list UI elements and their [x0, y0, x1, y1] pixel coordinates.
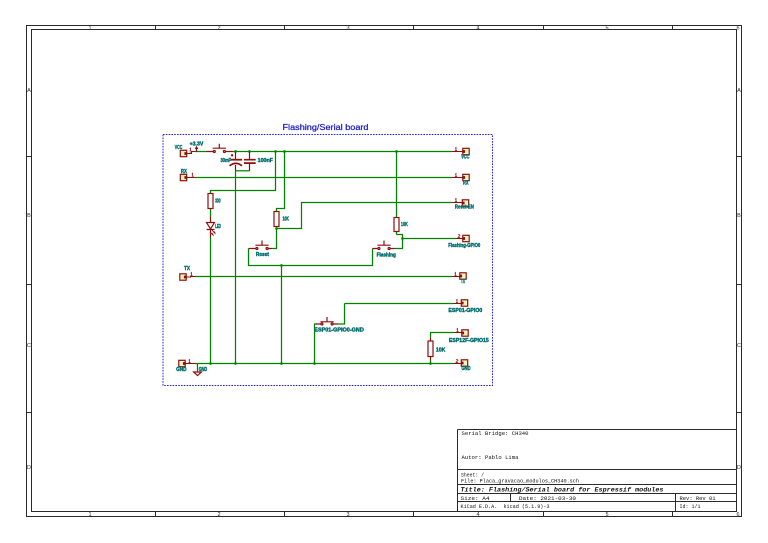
svg-text:5: 5: [605, 26, 608, 32]
svg-text:Rev: Rev 01: Rev: Rev 01: [680, 495, 717, 502]
svg-text:Title: Flashing/Serial board f: Title: Flashing/Serial board for Espress…: [461, 487, 664, 495]
svg-text:File: Placa_gravacao_modulos_C: File: Placa_gravacao_modulos_CH340.sch: [461, 477, 579, 484]
svg-text:C: C: [27, 343, 31, 349]
svg-text:Flashing-GPIO0: Flashing-GPIO0: [448, 243, 480, 249]
svg-text:C: C: [737, 343, 741, 349]
svg-text:GND: GND: [199, 367, 208, 373]
svg-text:10K: 10K: [401, 222, 408, 228]
svg-text:ESP12F-GPIO15: ESP12F-GPIO15: [449, 338, 489, 344]
svg-text:RX: RX: [181, 169, 188, 175]
svg-text:Id: 1/1: Id: 1/1: [680, 503, 702, 510]
svg-text:Reset: Reset: [256, 252, 269, 258]
svg-text:Flashing/Serial board: Flashing/Serial board: [283, 122, 369, 132]
svg-text:330: 330: [215, 199, 221, 205]
svg-text:3: 3: [346, 26, 349, 32]
svg-text:LED: LED: [215, 224, 221, 230]
svg-text:30mF: 30mF: [221, 158, 232, 164]
svg-text:Reset-EN: Reset-EN: [455, 205, 474, 211]
svg-text:4: 4: [476, 26, 479, 32]
svg-text:100nF: 100nF: [258, 158, 273, 164]
svg-text:1: 1: [88, 26, 91, 32]
svg-text:4: 4: [476, 512, 479, 518]
svg-text:1: 1: [88, 512, 91, 518]
svg-text:Flashing: Flashing: [377, 252, 396, 258]
svg-text:ESP01-GPIO0-GND: ESP01-GPIO0-GND: [314, 328, 364, 334]
svg-text:2: 2: [217, 26, 220, 32]
svg-text:TX: TX: [184, 266, 191, 272]
svg-text:Size: A4: Size: A4: [461, 495, 491, 502]
svg-text:D: D: [27, 465, 31, 471]
svg-text:GND: GND: [176, 367, 187, 373]
svg-text:GND: GND: [462, 366, 471, 372]
svg-text:Date: 2021-03-30: Date: 2021-03-30: [519, 495, 577, 502]
svg-text:10K: 10K: [436, 348, 446, 354]
svg-text:Autor: Pablo Lima: Autor: Pablo Lima: [462, 454, 520, 461]
svg-text:3: 3: [346, 512, 349, 518]
svg-text:Serial Bridge: CH340: Serial Bridge: CH340: [462, 430, 530, 437]
svg-text:A: A: [27, 88, 31, 94]
svg-text:5: 5: [605, 512, 608, 518]
svg-text:TX: TX: [461, 279, 466, 285]
svg-text:RX: RX: [463, 181, 469, 187]
svg-text:6: 6: [736, 26, 739, 32]
svg-text:10K: 10K: [283, 217, 290, 223]
svg-text:6: 6: [736, 512, 739, 518]
svg-text:+3.3V: +3.3V: [190, 142, 204, 148]
svg-text:VCC: VCC: [175, 145, 183, 151]
svg-text:VCC: VCC: [461, 155, 469, 161]
svg-text:B: B: [27, 213, 31, 219]
svg-text:KiCad E.D.A. kicad (5.1.9)-3: KiCad E.D.A. kicad (5.1.9)-3: [461, 503, 550, 510]
svg-text:A: A: [737, 88, 741, 94]
svg-text:B: B: [737, 213, 741, 219]
svg-text:ESP01-GPIO0: ESP01-GPIO0: [448, 308, 482, 314]
svg-text:D: D: [737, 465, 741, 471]
svg-text:2: 2: [217, 512, 220, 518]
